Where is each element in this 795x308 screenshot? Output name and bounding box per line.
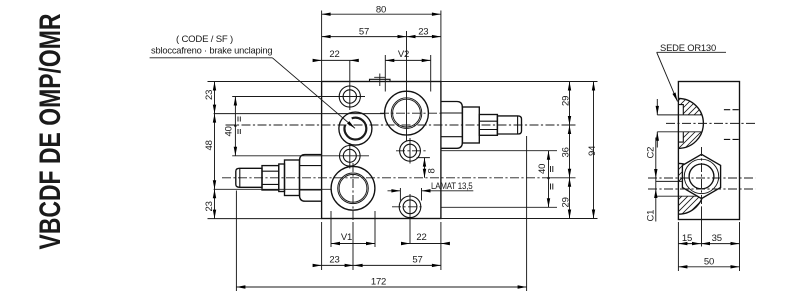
port V2 centerline vertical: [406, 31, 408, 141]
svg-text:23: 23: [204, 201, 215, 211]
top plug center cross: [374, 74, 385, 87]
port V1 centerline: [352, 163, 354, 222]
LAMAT 13,5 leader: [388, 188, 474, 201]
svg-text:23: 23: [329, 254, 339, 265]
port V1: [331, 166, 375, 210]
svg-text:57: 57: [359, 27, 369, 38]
right cartridge stem: [497, 116, 521, 134]
valve body block: [322, 82, 441, 219]
svg-text:23: 23: [204, 90, 215, 100]
hole right upper: [400, 140, 421, 161]
hole right lower crosshair: [392, 206, 424, 208]
dim 94: [593, 82, 595, 219]
centerline row upper cartridge: [226, 124, 564, 126]
svg-text:80: 80: [376, 4, 386, 15]
svg-text:15: 15: [682, 233, 692, 244]
svg-text:22: 22: [416, 232, 426, 243]
left cartridge washer: [279, 164, 285, 192]
hex plug bore: [689, 164, 714, 189]
dim 23/48/23 left: [214, 82, 216, 219]
side block outline: [678, 82, 739, 220]
centerline C2 row: [648, 177, 756, 179]
left cartridge big hex: [300, 155, 322, 202]
hex centerline vertical: [701, 147, 703, 207]
hole top-left: [339, 86, 360, 107]
brake port SF circle: [339, 112, 372, 145]
FRONT DIMENSIONS: [150, 4, 598, 291]
dim 15/35: [678, 243, 739, 245]
svg-text:40: 40: [224, 126, 235, 136]
svg-text:35: 35: [712, 233, 722, 244]
port V2 centerline horizontal: [380, 112, 444, 114]
seat step outline: [678, 105, 683, 143]
bore dim arrows: [656, 99, 658, 148]
svg-text:8: 8: [427, 168, 438, 173]
centerline C1 row: [648, 188, 756, 190]
dim V1 bracket: [331, 243, 375, 245]
lower seat arc: [678, 163, 703, 214]
svg-text:LAMAT 13,5: LAMAT 13,5: [431, 181, 473, 192]
dim 40 left: [234, 97, 236, 156]
svg-text:48: 48: [204, 140, 215, 150]
ext lines right of block: [441, 82, 598, 219]
dim 22 bottom: [402, 243, 448, 245]
centerline upper row: [666, 122, 756, 124]
left cartridge body: [285, 160, 300, 196]
symmetry marks left: [238, 117, 240, 135]
port V2: [385, 91, 429, 135]
SIDE VIEW: [646, 43, 756, 271]
dim 172: [236, 286, 526, 288]
OR130 seat upper hatched: [672, 94, 706, 152]
FRONT VIEW: [222, 31, 564, 244]
svg-text:V1: V1: [341, 232, 352, 243]
left cartridge stem: [236, 168, 262, 187]
hole right upper crosshair: [396, 150, 427, 152]
svg-text:V2: V2: [398, 49, 409, 60]
svg-text:22: 22: [329, 49, 339, 60]
ext lines 40 left: [232, 97, 335, 156]
hex plug chamfer circle: [684, 159, 718, 193]
hole mid-left crosshair: [334, 143, 369, 169]
hole top-left crosshair: [335, 60, 365, 110]
svg-text:40: 40: [537, 164, 548, 174]
centerline row lower cartridge: [222, 177, 551, 179]
ext lines bottom side: [678, 222, 739, 271]
ext lines left: [208, 82, 385, 219]
svg-text:23: 23: [418, 27, 428, 38]
brake port thread: [345, 118, 367, 140]
dim 50: [678, 266, 739, 268]
dim 40 right: [548, 151, 550, 208]
dim 23/57 bottom: [314, 264, 441, 266]
svg-text:36: 36: [561, 147, 572, 157]
right cartridge small hex: [479, 115, 497, 136]
C2 dim: [655, 138, 657, 222]
svg-text:( CODE / SF ): ( CODE / SF ): [176, 34, 233, 45]
symmetry marks right: [551, 166, 553, 190]
right cartridge body: [462, 107, 479, 143]
svg-text:29: 29: [561, 96, 572, 106]
hole right lower: [399, 196, 421, 218]
svg-text:172: 172: [371, 277, 386, 288]
left cartridge small hex: [262, 166, 279, 190]
dim 8: [417, 158, 430, 178]
svg-text:29: 29: [561, 197, 572, 207]
dim 29/36/29: [569, 82, 571, 219]
hole mid-left: [340, 146, 361, 167]
dim 80: [322, 13, 441, 15]
seat bore lines: [657, 115, 702, 132]
svg-text:57: 57: [412, 254, 422, 265]
svg-text:C1: C1: [646, 210, 657, 222]
ext lines top: [322, 11, 441, 82]
ext lines bottom: [236, 136, 526, 291]
lower bore lines: [656, 181, 703, 196]
svg-text:VBCDF DE OMP/OMR: VBCDF DE OMP/OMR: [34, 13, 67, 249]
top plug bump: [370, 79, 391, 81]
lower seat hatched: [672, 159, 706, 218]
right cartridge big hex: [441, 102, 463, 149]
dim 57 top: [322, 36, 441, 38]
svg-text:C2: C2: [646, 147, 657, 159]
svg-text:94: 94: [587, 146, 598, 156]
port V2 bracket: [385, 55, 430, 92]
hidden port dashes right: [724, 110, 739, 140]
svg-text:sbloccafreno · brake unclaping: sbloccafreno · brake unclaping: [151, 46, 272, 57]
OR130 seat arc: [678, 98, 703, 148]
svg-text:50: 50: [704, 257, 714, 268]
label leader to SF port: [272, 58, 355, 129]
dim 22 top: [314, 59, 357, 61]
hex plug: [682, 154, 720, 198]
